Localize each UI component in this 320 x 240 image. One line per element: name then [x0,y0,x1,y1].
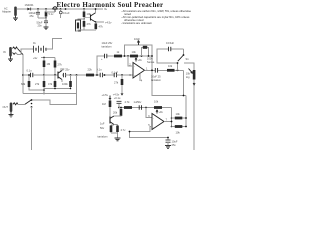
resistor R9 10k [130,55,138,58]
wire bias node to LDR box [78,19,84,20]
svg-text:22k: 22k [88,68,93,72]
ground rail below [44,88,71,90]
ground (LED) [115,138,121,141]
op-amp U1b supply arrow [156,110,158,113]
node 9v rail to R20 [83,8,85,10]
svg-text:100k: 100k [62,82,68,86]
svg-text:log: log [186,75,190,79]
switch S1 [177,49,185,64]
node (filter cap tap) [37,8,39,10]
node lower row left [129,131,131,133]
svg-text:68k: 68k [21,82,26,86]
capacitor C7 [169,47,171,51]
op-amp U1a pin numbers [129,62,148,82]
svg-text:10k: 10k [154,100,159,104]
node R2 junction [54,74,56,76]
resistor R14 [154,106,162,109]
svg-text:10pF: 10pF [134,37,140,41]
resistor R8 1k [114,55,122,58]
svg-text:10k: 10k [176,131,181,135]
wire lower power rail [38,17,46,19]
node bus row2 [185,126,187,128]
svg-text:+4.5v: +4.5v [105,21,112,25]
svg-text:+4.5v: +4.5v [102,93,109,97]
+4.5v feed arrow (Q3) [109,96,111,100]
node (zener tap) [45,8,47,10]
op-amp U1a supply arrow [135,58,137,62]
svg-text:10uF: 10uF [172,140,178,144]
outer feedback loop wire [125,45,187,96]
node out switch top [31,99,33,101]
capacitor C13 [139,105,141,109]
inner loop component [142,46,149,56]
svg-text:47k: 47k [48,82,53,86]
node U1b output [171,121,173,123]
wire signal [44,74,63,76]
resistor R4 68k [28,74,44,90]
svg-text:1N4001: 1N4001 [25,3,35,7]
LDR element [77,23,79,29]
wire to switch [157,49,184,70]
node lower rail [45,17,47,19]
resistor R10 27k [121,75,124,93]
wire tip to blade [18,103,25,105]
node feedback left [127,55,129,57]
switch blade (input) [18,49,24,55]
svg-text:10uF 25v: 10uF 25v [102,41,114,45]
svg-text:- transistors are unknown: - transistors are unknown [121,21,152,25]
node bias junction [43,74,45,76]
svg-text:25v: 25v [30,14,35,18]
svg-text:10k: 10k [176,112,181,116]
wire bias bottom rail [76,27,96,31]
node input/cap [22,74,24,76]
wire +input row [130,127,153,132]
node out switch mid [31,103,33,105]
node after C3 [104,74,106,76]
volume pot VR1 [184,63,195,80]
resistor R5 27k [43,75,46,94]
capacitor C3 [100,73,114,77]
capacitor C14 [110,125,113,133]
node inner loop left [141,55,143,57]
wire U1b output [164,121,172,123]
node outer loop left [124,55,126,57]
capacitor C8 [166,138,171,146]
svg-text:100k: 100k [147,57,153,61]
svg-text:IN: IN [3,50,6,54]
node upper leg [96,74,98,76]
capacitor C12 [117,101,122,107]
node +9v feed [43,57,45,59]
row to op-amp B inverting input [119,107,172,109]
LED D3 [116,125,119,134]
trimpot wiper (sense) [137,41,139,45]
node op-amp input [121,74,123,76]
svg-text:0.1u: 0.1u [27,69,33,73]
wire diode to node [31,8,53,10]
svg-text:tantalum: tantalum [151,78,161,82]
svg-text:25v: 25v [38,24,43,28]
svg-text:S1: S1 [186,57,190,61]
svg-text:47k: 47k [87,22,92,26]
wire op-amp A output [145,69,184,71]
wire inverting input [128,56,133,66]
op-amp U1a [133,63,145,79]
wire inverting input drop [146,108,152,118]
node fb row1 left [171,117,173,119]
jack tip contact [13,47,18,49]
wire Q4 collector to rail [95,9,97,13]
node gnd rail b [70,88,72,90]
diode D1 [27,8,30,11]
wire +9v feed [41,57,55,59]
resistor R17 20k [114,108,122,117]
resistor R2 56k [54,58,57,76]
zener D2 [45,9,48,18]
resistor R15 row1 [172,117,187,120]
node R5 rail [43,93,45,95]
resistor R1 1M [43,58,46,76]
resistor R16 row2 [172,125,187,128]
svg-text:50v: 50v [100,126,105,130]
wire right bus down [185,96,187,127]
svg-text:+0.1u: +0.1u [114,96,121,100]
svg-text:10k: 10k [186,72,191,76]
svg-text:27k: 27k [35,82,40,86]
node Q4 emitter [95,21,97,23]
wire lower row [130,132,169,138]
svg-text:5.1v: 5.1v [49,12,55,16]
svg-text:25v: 25v [172,143,177,147]
resistor R3 [86,74,100,77]
LDR box [76,20,81,31]
resistor R13 [124,106,132,109]
node (reg output) [60,8,62,10]
transistor Q3 [110,116,114,125]
svg-text:4.7v: 4.7v [121,128,127,132]
switch blade (output) [25,100,32,105]
node feedback tap [145,107,147,109]
svg-text:+9v: +9v [159,110,164,114]
node gnd rail a [54,88,56,90]
wire ring to battery minus [16,49,34,55]
ground (C8) [165,146,171,149]
svg-text:10k: 10k [168,64,173,68]
svg-text:tantalum: tantalum [98,135,108,139]
node bypass tap [76,74,78,76]
volume pot wiper [189,69,193,74]
pass transistor Q5 [53,7,58,12]
node bus row1 [185,117,187,119]
svg-text:0.1uF: 0.1uF [63,11,70,15]
svg-text:0.1uF: 0.1uF [112,71,119,75]
resistor R21 47k [83,19,86,30]
svg-text:20k: 20k [113,111,118,115]
capacitor C6 [155,68,157,73]
svg-text:- All resistors are carbon fil: - All resistors are carbon film, 1/4W, 5… [121,9,191,13]
wire output to bottom [183,70,185,95]
node R5 bottom [43,89,45,91]
svg-text:1uF: 1uF [100,122,105,126]
transistor Q4 [84,13,96,22]
svg-text:47k: 47k [99,25,104,29]
svg-text:0.15uF: 0.15uF [166,41,174,45]
wire out bus down [31,107,33,150]
node switch tap [177,69,179,71]
capacitor C5 [101,54,107,61]
svg-text:27k: 27k [114,81,119,85]
wire emitter to +4.5v [96,21,104,23]
wire Q5 emitter to 9v rail [58,8,104,10]
svg-text:-: - [153,118,154,121]
ground (supply filter) [44,27,49,30]
wire input column [22,55,24,94]
resistor R12 1M [109,99,112,117]
wire signal ground rail [23,94,77,105]
node output/rail [183,95,185,97]
wire LED bottom row [111,133,118,138]
svg-text:1M: 1M [102,102,106,106]
battery BT1 [34,46,47,53]
svg-text:1u/50v: 1u/50v [134,100,142,104]
wire upper line left leg [97,56,152,75]
capacitor C11 (reg output) [59,9,62,18]
resistor R6 47k [54,75,57,89]
svg-text:Electro Harmonix Soul Preacher: Electro Harmonix Soul Preacher [57,1,164,9]
resistor R7 100k [69,75,72,89]
node reg rail [65,8,67,10]
op-amp U1b [152,114,164,130]
node fb row2 left [171,126,173,128]
wire tip to switch blade [16,48,18,50]
node 20k row [120,107,122,109]
wire base of Q5 to zener [46,9,55,12]
ground (input jack) [8,57,13,62]
capacitor C1 [23,73,44,77]
svg-text:4.7k: 4.7k [125,100,131,104]
ground (output jack) [9,112,14,117]
wire adapter to diode [17,8,27,10]
svg-text:OUT: OUT [3,105,9,109]
output jack J2 [10,103,13,113]
input jack J1 [9,47,12,57]
wire bypass column [76,75,78,94]
node output/feedback [151,69,153,71]
op-amp U1a pin4 stub [139,74,141,81]
resistor R22 47k [95,22,98,30]
op-amp U1b pin numbers [148,114,167,127]
jack ring contact [13,53,16,55]
node Q4 collector [95,8,97,10]
node cap row [167,137,169,139]
output jack tip contact [13,103,18,105]
ground (adapter) [13,16,18,21]
svg-text:Sense: Sense [147,60,155,64]
svg-text:10k: 10k [132,50,137,54]
svg-text:+9v: +9v [33,56,38,60]
capacitor C2 [62,68,86,82]
svg-text:27k: 27k [58,63,63,67]
node C12 row [118,107,120,109]
svg-text:tantalum: tantalum [102,44,112,48]
notes [121,9,191,25]
node out switch bottom [31,106,33,108]
svg-text:1M: 1M [47,62,51,66]
transistor Q1 [58,71,62,80]
wire pot bottom to out bus [193,80,195,151]
svg-text:+4.5v: +4.5v [113,93,120,97]
+4.5v feed arrow (opamp bias) [121,93,123,95]
pot bottom arrow [193,83,195,85]
resistor R20 10k [83,9,86,20]
svg-text:10uF 25: 10uF 25 [151,75,161,79]
svg-text:Adapter: Adapter [2,10,11,14]
capacitor C9 [36,9,40,18]
wire feedback right leg [171,108,173,127]
emitter row [111,124,118,126]
node inner loop right [148,55,150,57]
capacitor C10 [44,18,48,27]
node bias [83,18,85,20]
AC adapter jack J3 [14,7,17,17]
wire battery plus [46,39,62,50]
resistor R11 10k [167,69,175,72]
capacitor C4 [114,73,133,77]
svg-text:+9v: +9v [138,58,143,62]
node mid [70,74,72,76]
svg-text:-: - [134,66,135,69]
